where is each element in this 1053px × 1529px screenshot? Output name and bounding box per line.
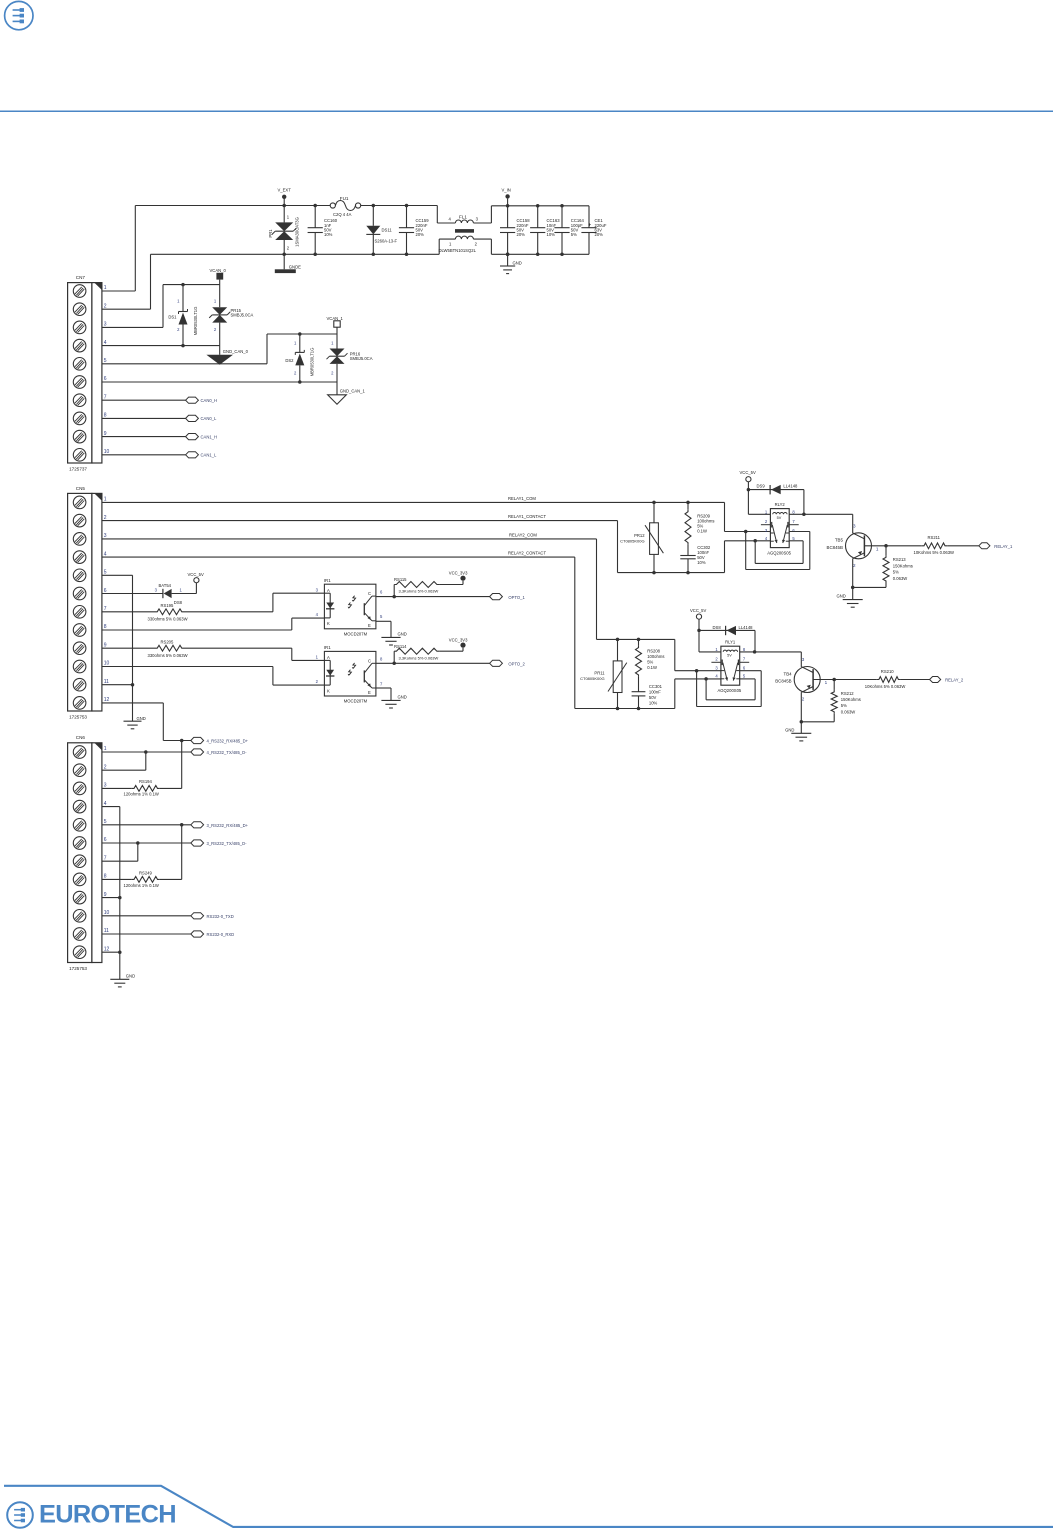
wire TB5 base node bbox=[864, 544, 887, 548]
wire VCAN_1 rail bbox=[267, 332, 337, 336]
svg-text:RS211: RS211 bbox=[928, 535, 941, 540]
svg-text:1725753: 1725753 bbox=[69, 714, 87, 719]
terminal CAN1_H bbox=[186, 434, 217, 440]
diode DS9 LL4148 bbox=[748, 484, 804, 515]
svg-text:+: + bbox=[588, 223, 591, 229]
svg-text:1: 1 bbox=[104, 746, 107, 752]
resistor RS211 10Kohms bbox=[886, 535, 979, 555]
svg-text:4: 4 bbox=[104, 551, 107, 557]
ground GND (TB4) bbox=[785, 692, 811, 741]
svg-text:330ohms 5% 0.063W: 330ohms 5% 0.063W bbox=[148, 653, 188, 658]
resistor RS114 3,3Kohms bbox=[394, 644, 463, 663]
wire RELAY2_COM (CN5 pin3) bbox=[102, 532, 721, 672]
capacitor CC160 bbox=[308, 204, 338, 256]
wire riser CN7 pin1 to top rail bbox=[134, 206, 136, 292]
svg-text:GND_CAN_0: GND_CAN_0 bbox=[223, 349, 249, 354]
fuse FU1 C2Q 4 4A bbox=[330, 196, 361, 217]
svg-text:RS232-0_RXD: RS232-0_RXD bbox=[207, 932, 235, 937]
svg-text:GND: GND bbox=[513, 261, 522, 266]
svg-text:DLW5BTN101SQ2L: DLW5BTN101SQ2L bbox=[439, 248, 477, 253]
svg-text:PR1: PR1 bbox=[268, 229, 273, 238]
terminal CAN0_H bbox=[186, 397, 217, 403]
resistor RS115 3,3Kohms bbox=[394, 577, 463, 596]
svg-text:A: A bbox=[327, 588, 330, 593]
wire bottom rail GNDE bbox=[151, 253, 440, 255]
svg-text:9: 9 bbox=[104, 892, 107, 898]
svg-text:10: 10 bbox=[104, 449, 110, 455]
svg-text:RS194: RS194 bbox=[139, 779, 152, 784]
svg-text:C: C bbox=[368, 591, 371, 596]
terminal RELAY_2 bbox=[930, 677, 964, 683]
svg-text:3: 3 bbox=[853, 523, 856, 528]
svg-text:7: 7 bbox=[104, 394, 107, 400]
node VCC_5V (relay2) bbox=[690, 608, 706, 619]
svg-text:2: 2 bbox=[104, 764, 107, 770]
Eurotech logo (top left) bbox=[5, 1, 33, 29]
wire CN7 pin 10 bbox=[102, 454, 186, 456]
svg-text:DS1: DS1 bbox=[168, 315, 177, 320]
svg-text:5V: 5V bbox=[777, 516, 782, 520]
svg-text:RELAY_1: RELAY_1 bbox=[994, 544, 1013, 549]
resistor RS212 150Kohms bbox=[800, 680, 861, 724]
svg-text:MOCD207M: MOCD207M bbox=[344, 632, 368, 637]
svg-text:VCC_3V3: VCC_3V3 bbox=[449, 571, 468, 576]
svg-text:OPTO_2: OPTO_2 bbox=[508, 662, 525, 667]
svg-text:CN5: CN5 bbox=[76, 486, 86, 491]
svg-text:5%: 5% bbox=[647, 659, 653, 664]
wire bottom rail right (GND) bbox=[491, 253, 589, 255]
svg-text:4_RS232_TX/485_D-: 4_RS232_TX/485_D- bbox=[207, 750, 248, 755]
svg-text:5%: 5% bbox=[841, 703, 847, 708]
terminal 3_RS232_RX/485_D+ bbox=[191, 822, 249, 828]
diode DS8 BAT54 bbox=[102, 583, 196, 605]
wire CN6 pin7 bbox=[102, 860, 138, 862]
svg-text:GND: GND bbox=[137, 716, 146, 721]
wire CN7 pin 9 bbox=[102, 436, 186, 438]
Eurotech logo (bottom) bbox=[7, 1502, 33, 1528]
wire CN7 pin 2 bbox=[102, 308, 151, 310]
svg-text:1: 1 bbox=[876, 546, 879, 551]
wire CN7 pin 6 bbox=[102, 381, 337, 383]
svg-text:5: 5 bbox=[104, 819, 107, 825]
svg-text:DS2: DS2 bbox=[285, 358, 294, 363]
svg-text:A: A bbox=[327, 655, 330, 660]
wire CN6 pin9 bbox=[102, 897, 120, 899]
svg-text:3,3Kohms 5% 0.063W: 3,3Kohms 5% 0.063W bbox=[399, 655, 439, 660]
svg-text:AGQ200S05: AGQ200S05 bbox=[718, 688, 742, 693]
svg-text:VCC_5V: VCC_5V bbox=[188, 572, 204, 577]
wire RLY2 pin8 to TB5 collector bbox=[789, 513, 853, 534]
terminal RS232-0_TXD bbox=[191, 913, 234, 919]
svg-text:K: K bbox=[327, 688, 330, 693]
svg-text:RS115: RS115 bbox=[394, 577, 407, 582]
svg-text:8: 8 bbox=[104, 874, 107, 880]
svg-text:5%: 5% bbox=[893, 570, 899, 575]
svg-text:20%: 20% bbox=[517, 232, 526, 237]
svg-text:120ohms 1% 0.1W: 120ohms 1% 0.1W bbox=[124, 792, 159, 797]
capacitor CC302 100nF bbox=[680, 545, 711, 573]
relay RLY2 AGQ200S05 bbox=[761, 502, 799, 556]
svg-text:3: 3 bbox=[802, 657, 805, 662]
wire CN7 pin 1 bbox=[102, 290, 135, 292]
wire CN6 pin5 bbox=[102, 823, 191, 827]
terminal OPTO_2 bbox=[490, 660, 526, 666]
svg-text:MOCD207M: MOCD207M bbox=[344, 699, 368, 704]
resistor RS208 100ohms bbox=[636, 639, 665, 691]
capacitor CC163 bbox=[530, 204, 560, 256]
svg-text:BC845B: BC845B bbox=[827, 545, 843, 550]
svg-text:RLY1: RLY1 bbox=[725, 640, 736, 645]
svg-text:1: 1 bbox=[104, 497, 107, 503]
wire riser CN7 pin3 to VCAN_0 rail bbox=[162, 285, 164, 328]
wire CN6 pin2 bbox=[102, 769, 146, 771]
ground GND (opto1) bbox=[376, 621, 407, 645]
svg-text:DS9: DS9 bbox=[757, 484, 766, 489]
svg-text:V_EXT: V_EXT bbox=[278, 188, 292, 193]
svg-text:1SMA30CAT3G: 1SMA30CAT3G bbox=[295, 217, 300, 247]
svg-text:3,3Kohms 5% 0.063W: 3,3Kohms 5% 0.063W bbox=[399, 588, 439, 593]
ground GNDE bbox=[275, 254, 301, 273]
optocoupler IR1 (upper) MOCD207M bbox=[316, 578, 383, 637]
wire CN5 pin5 to GND bus bbox=[102, 575, 134, 721]
svg-text:6: 6 bbox=[104, 837, 107, 843]
ground GND_CAN_0 bbox=[206, 346, 248, 365]
wire OPTO_1 output bbox=[376, 595, 490, 599]
svg-text:150Kohms: 150Kohms bbox=[893, 563, 913, 568]
svg-text:2: 2 bbox=[104, 515, 107, 521]
svg-text:5: 5 bbox=[104, 570, 107, 576]
wire CN6 pin1 bbox=[102, 750, 191, 770]
svg-text:E: E bbox=[368, 690, 371, 695]
svg-text:VCC_3V3: VCC_3V3 bbox=[449, 638, 468, 643]
svg-text:2: 2 bbox=[802, 697, 805, 702]
svg-text:1725753: 1725753 bbox=[69, 966, 87, 971]
svg-text:CC301: CC301 bbox=[649, 684, 663, 689]
svg-text:CAN1_H: CAN1_H bbox=[201, 434, 218, 439]
varistor PR12 CT0805K00G bbox=[620, 502, 663, 572]
svg-text:GND_CAN_1: GND_CAN_1 bbox=[340, 389, 366, 394]
wire CN6 pin4 to GND bus bbox=[102, 807, 122, 980]
svg-text:E: E bbox=[368, 623, 371, 628]
node V_EXT bbox=[278, 188, 292, 208]
ground GND (opto2) bbox=[376, 688, 407, 708]
svg-text:IR1: IR1 bbox=[324, 578, 331, 583]
ground GND (power) bbox=[500, 253, 522, 274]
common-mode filter FL1 DLW5BTN101SQ2L bbox=[437, 206, 491, 255]
svg-text:100ohms: 100ohms bbox=[647, 654, 664, 659]
diode DS7 LL4148 bbox=[699, 625, 755, 652]
svg-text:BAT54: BAT54 bbox=[159, 583, 172, 588]
svg-text:10: 10 bbox=[104, 661, 110, 667]
capacitor CC158 bbox=[500, 206, 530, 256]
svg-text:RS249: RS249 bbox=[139, 870, 152, 875]
svg-text:RS195: RS195 bbox=[161, 603, 174, 608]
resistor RS195 330ohms bbox=[102, 593, 325, 621]
svg-text:GND: GND bbox=[836, 594, 845, 599]
svg-text:RS232-0_TXD: RS232-0_TXD bbox=[207, 914, 234, 919]
svg-text:0.063W: 0.063W bbox=[893, 576, 907, 581]
transistor TB4 BC845B bbox=[775, 657, 827, 702]
svg-text:CAN0_L: CAN0_L bbox=[201, 416, 217, 421]
svg-text:11: 11 bbox=[104, 928, 109, 934]
svg-text:3_RS232_RX/485_D+: 3_RS232_RX/485_D+ bbox=[207, 823, 249, 828]
svg-text:12: 12 bbox=[104, 697, 110, 703]
wire RELAY2_CONTACT (CN5 pin4) bbox=[102, 551, 721, 711]
terminal RELAY_1 bbox=[979, 543, 1013, 549]
svg-text:VCC_5V: VCC_5V bbox=[740, 470, 756, 475]
svg-text:0.1W: 0.1W bbox=[697, 528, 707, 533]
svg-text:RELAY_2: RELAY_2 bbox=[945, 678, 964, 683]
svg-text:IR1: IR1 bbox=[324, 645, 331, 650]
svg-text:GND: GND bbox=[126, 973, 135, 978]
svg-text:5: 5 bbox=[104, 358, 107, 364]
svg-text:SMBJ5.0CA: SMBJ5.0CA bbox=[231, 313, 254, 318]
wire CN7 pin 4 bbox=[102, 345, 220, 347]
svg-text:PR12: PR12 bbox=[634, 533, 645, 538]
TVS diode PR16 SMBJ5.0CA bbox=[327, 334, 373, 382]
svg-text:CAN0_H: CAN0_H bbox=[201, 398, 218, 403]
svg-text:7: 7 bbox=[104, 606, 107, 612]
svg-text:RLY2: RLY2 bbox=[775, 502, 786, 507]
svg-text:RS205: RS205 bbox=[161, 640, 174, 645]
svg-text:3_RS232_TX/485_D-: 3_RS232_TX/485_D- bbox=[207, 841, 248, 846]
svg-text:20%: 20% bbox=[416, 232, 425, 237]
wire riser CN7 pin2 to bottom rail bbox=[150, 254, 152, 309]
svg-text:6: 6 bbox=[104, 376, 107, 382]
svg-text:GND: GND bbox=[785, 727, 794, 732]
svg-text:S260A-13-F: S260A-13-F bbox=[375, 239, 398, 244]
svg-text:9: 9 bbox=[104, 642, 107, 648]
svg-text:9: 9 bbox=[104, 431, 107, 437]
wire CN7 pin 3 bbox=[102, 326, 163, 328]
resistor RS205 330ohms bbox=[102, 640, 325, 661]
wire CN7 pin 7 bbox=[102, 399, 186, 401]
wire relay RLY2 wrap (pin3-pin6) bbox=[746, 532, 810, 570]
svg-text:RS210: RS210 bbox=[881, 669, 894, 674]
schottky diode DS2 MBR0530LT1G bbox=[285, 334, 314, 384]
EUROTECH wordmark bbox=[39, 1501, 176, 1529]
wire relay RLY1 wrap (pin3-pin6) bbox=[697, 671, 762, 707]
wire VCC_5V to relay RLY2 pin1 bbox=[747, 482, 771, 515]
transistor TB5 BC845B bbox=[827, 523, 879, 568]
svg-text:TB5: TB5 bbox=[835, 538, 844, 543]
wire VCC_5V to relay RLY1 pin1 bbox=[697, 619, 721, 652]
resistor RS249 120ohms bbox=[102, 825, 182, 888]
svg-text:VCC_5V: VCC_5V bbox=[690, 608, 706, 613]
svg-text:10%: 10% bbox=[697, 560, 706, 565]
svg-text:2: 2 bbox=[104, 303, 107, 309]
relay RLY1 AGQ200S05 bbox=[711, 640, 749, 694]
resistor RS213 150Kohms bbox=[851, 546, 913, 589]
svg-text:K: K bbox=[327, 621, 330, 626]
svg-text:CT0805K00G: CT0805K00G bbox=[620, 539, 644, 544]
svg-text:DS8: DS8 bbox=[174, 600, 183, 605]
wire CN5 pin8 to opto IR1 pin4 bbox=[102, 618, 325, 630]
svg-text:RELAY1_CONTACT: RELAY1_CONTACT bbox=[508, 514, 546, 519]
svg-text:CN7: CN7 bbox=[76, 275, 86, 280]
node VCC_5V (relay1) bbox=[740, 470, 756, 482]
ground GND (TB5) bbox=[836, 559, 862, 608]
svg-text:3: 3 bbox=[104, 322, 107, 328]
svg-text:RS213: RS213 bbox=[893, 557, 906, 562]
TVS diode PR1 1SMA30CAT3G bbox=[268, 206, 300, 257]
svg-text:5%: 5% bbox=[571, 232, 577, 237]
svg-text:120ohms 1% 0.1W: 120ohms 1% 0.1W bbox=[124, 883, 159, 888]
capacitor CE1 (electrolytic) bbox=[581, 206, 606, 255]
svg-text:4: 4 bbox=[104, 340, 107, 346]
wire VCAN_0 rail bbox=[163, 283, 220, 287]
ground GND_CAN_1 bbox=[328, 382, 366, 404]
svg-text:10%: 10% bbox=[649, 700, 658, 705]
node VCAN_0 bbox=[210, 268, 227, 285]
node VCC_5V (CN5) bbox=[188, 572, 204, 583]
svg-text:330ohms 5% 0.063W: 330ohms 5% 0.063W bbox=[148, 617, 188, 622]
wire CN6 pin12 bbox=[102, 951, 120, 953]
svg-text:CN6: CN6 bbox=[76, 735, 86, 740]
svg-text:4: 4 bbox=[104, 801, 107, 807]
diode DS11 S260A-13-F bbox=[366, 204, 397, 256]
wire net 4_RS232 RX (from CN5 pin12) bbox=[163, 739, 191, 743]
connector CN6 1725753 bbox=[68, 735, 110, 971]
connector CN7 1725737 bbox=[68, 275, 110, 472]
optocoupler IR1 (lower) MOCD207M bbox=[316, 645, 383, 704]
svg-text:BC845B: BC845B bbox=[775, 679, 791, 684]
footer rule bbox=[4, 1486, 1053, 1527]
wire top rail V_EXT bbox=[135, 205, 437, 207]
svg-text:C: C bbox=[368, 658, 371, 663]
svg-text:RS114: RS114 bbox=[394, 644, 407, 649]
svg-text:50V: 50V bbox=[649, 695, 657, 700]
svg-text:GND: GND bbox=[398, 695, 407, 700]
wire TB4 base node bbox=[813, 678, 836, 682]
svg-text:FL1: FL1 bbox=[459, 215, 467, 220]
svg-text:8: 8 bbox=[104, 413, 107, 419]
svg-text:C2Q 4 4A: C2Q 4 4A bbox=[333, 212, 352, 217]
wire CN6 pin10 bbox=[102, 915, 191, 917]
svg-text:EUROTECH: EUROTECH bbox=[39, 1501, 176, 1529]
svg-text:0.1W: 0.1W bbox=[647, 665, 657, 670]
svg-text:TB4: TB4 bbox=[784, 671, 793, 676]
svg-text:8: 8 bbox=[104, 624, 107, 630]
svg-text:100nF: 100nF bbox=[649, 689, 661, 694]
connector CN5 1725753 bbox=[68, 486, 110, 720]
svg-text:FU1: FU1 bbox=[340, 196, 349, 201]
wire CN5 pin11 to GND bus bbox=[102, 684, 133, 686]
svg-text:10Kohms 5% 0.063W: 10Kohms 5% 0.063W bbox=[865, 684, 906, 689]
capacitor CC164 bbox=[554, 204, 584, 256]
svg-text:MBR0530LT1G: MBR0530LT1G bbox=[193, 307, 198, 336]
svg-text:VCAN_0: VCAN_0 bbox=[210, 268, 227, 273]
terminal 4_RS232_RX/485_D+ bbox=[191, 737, 249, 743]
TVS diode PR15 SMBJ5.0CA bbox=[209, 285, 253, 346]
svg-text:DS8: DS8 bbox=[713, 625, 722, 630]
wire CN5 pin10 to opto IR1 pin2 bbox=[102, 667, 325, 686]
svg-text:150Kohms: 150Kohms bbox=[841, 697, 861, 702]
svg-text:3: 3 bbox=[104, 533, 107, 539]
svg-text:LL4148: LL4148 bbox=[783, 484, 798, 489]
svg-text:10Kohms 5% 0.063W: 10Kohms 5% 0.063W bbox=[914, 550, 955, 555]
wire RELAY1_CONTACT (CN5 pin2) bbox=[102, 514, 771, 574]
svg-text:GNDE: GNDE bbox=[289, 264, 301, 269]
terminal CAN1_L bbox=[186, 452, 217, 458]
svg-text:20%: 20% bbox=[595, 232, 604, 237]
svg-text:SMBJ5.0CA: SMBJ5.0CA bbox=[350, 356, 373, 361]
svg-text:GND: GND bbox=[398, 631, 407, 636]
terminal 4_RS232_TX/485_D- bbox=[191, 749, 247, 755]
svg-text:0.063W: 0.063W bbox=[841, 709, 855, 714]
wire OPTO_2 output bbox=[376, 662, 490, 666]
svg-text:RELAY2_COM: RELAY2_COM bbox=[509, 532, 537, 537]
wire CN6 pin6 bbox=[102, 841, 191, 861]
svg-text:RELAY1_COM: RELAY1_COM bbox=[508, 496, 536, 501]
wire CN7 pin 5 bbox=[102, 363, 267, 365]
terminal RS232-0_RXD bbox=[191, 931, 234, 937]
svg-text:LL4148: LL4148 bbox=[739, 625, 754, 630]
svg-text:RELAY2_CONTACT: RELAY2_CONTACT bbox=[508, 551, 546, 556]
svg-text:CAN1_L: CAN1_L bbox=[201, 453, 217, 458]
node V_IN bbox=[502, 188, 511, 208]
svg-text:1725737: 1725737 bbox=[69, 467, 87, 472]
ground GND (CN6) bbox=[110, 973, 135, 987]
svg-text:RS212: RS212 bbox=[841, 691, 854, 696]
svg-text:11: 11 bbox=[104, 679, 109, 685]
wire RELAY1_COM (CN5 pin1) bbox=[102, 496, 771, 533]
svg-text:OPTO_1: OPTO_1 bbox=[508, 595, 525, 600]
wire top rail right (V_IN) bbox=[491, 205, 589, 207]
terminal OPTO_1 bbox=[490, 594, 526, 600]
ground GND (CN5 bus) bbox=[124, 716, 146, 729]
resistor RS210 10Kohms bbox=[834, 669, 929, 689]
svg-text:3: 3 bbox=[104, 783, 107, 789]
svg-text:5V: 5V bbox=[727, 654, 732, 658]
svg-text:10: 10 bbox=[104, 910, 110, 916]
capacitor CC301 100nF bbox=[632, 684, 663, 709]
schottky diode DS1 MBR0530LT1G bbox=[168, 285, 197, 348]
svg-text:4_RS232_RX/485_D+: 4_RS232_RX/485_D+ bbox=[207, 739, 249, 744]
wire RLY1 pin8 to TB4 collector bbox=[740, 650, 802, 667]
node VCAN_1 bbox=[327, 316, 344, 334]
svg-text:MBR0530LT1G: MBR0530LT1G bbox=[310, 348, 315, 377]
wire relay RLY1 wrap (pin4-pin5) bbox=[706, 679, 755, 700]
wire CN6 pin11 bbox=[102, 933, 191, 935]
top horizontal rule bbox=[0, 110, 1053, 112]
svg-text:7: 7 bbox=[104, 855, 107, 861]
node VCC_3V3 (1) bbox=[449, 571, 468, 581]
wire CN7 pin 8 bbox=[102, 417, 186, 419]
node VCC_3V3 (2) bbox=[449, 638, 468, 648]
svg-text:1: 1 bbox=[825, 680, 828, 685]
svg-text:10%: 10% bbox=[324, 232, 333, 237]
svg-text:2: 2 bbox=[853, 563, 856, 568]
svg-text:12: 12 bbox=[104, 946, 110, 952]
wire riser CN7 pin5 to VCAN_1 rail bbox=[266, 334, 268, 364]
terminal 3_RS232_TX/485_D- bbox=[191, 840, 247, 846]
wire CN5 pin12 riser bbox=[102, 703, 163, 741]
svg-text:CT0805K00G: CT0805K00G bbox=[580, 676, 604, 681]
svg-text:AGQ200S05: AGQ200S05 bbox=[767, 551, 791, 556]
capacitor CC159 bbox=[399, 204, 429, 256]
svg-text:RS208: RS208 bbox=[647, 648, 660, 653]
varistor PR11 CT0805K00G bbox=[580, 639, 627, 708]
svg-text:PR11: PR11 bbox=[594, 671, 605, 676]
wire relay RLY2 wrap (pin4-pin5) bbox=[755, 541, 803, 564]
terminal CAN0_L bbox=[186, 415, 217, 421]
svg-text:DS11: DS11 bbox=[382, 228, 393, 233]
resistor RS209 100ohms bbox=[685, 502, 714, 555]
resistor RS194 120ohms bbox=[102, 741, 182, 797]
svg-text:1: 1 bbox=[104, 285, 107, 291]
svg-text:10%: 10% bbox=[547, 232, 556, 237]
